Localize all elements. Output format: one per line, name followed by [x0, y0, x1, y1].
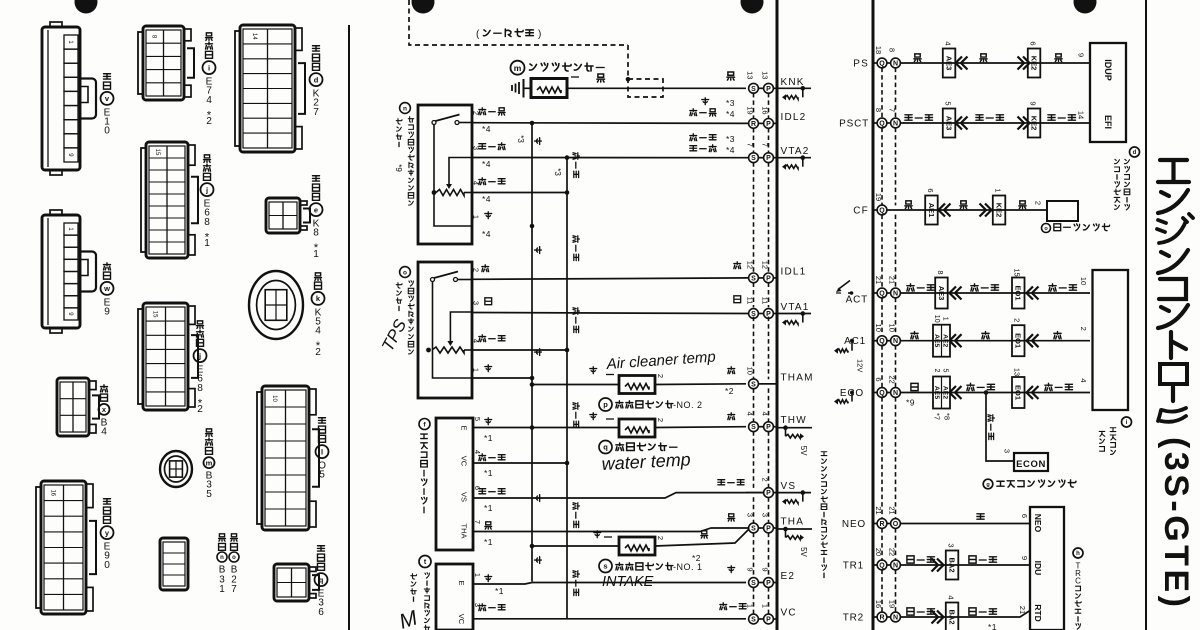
ECM left boundary [776, 0, 779, 630]
potentiometer N1 [432, 190, 437, 195]
dashed link S col [753, 497, 755, 523]
label cha O1 [485, 365, 492, 372]
svg-text:0: 0 [104, 126, 110, 137]
node bus1 top [530, 121, 535, 126]
chevron [955, 287, 962, 300]
thermistor NO1 [619, 537, 655, 555]
pin 1 no1 [604, 536, 612, 538]
svg-text:P: P [766, 424, 771, 431]
svg-text:q: q [603, 443, 608, 452]
svg-text:*1: *1 [988, 622, 997, 630]
dashed link P col [768, 93, 770, 119]
turbo box [436, 564, 473, 630]
svg-text:j: j [198, 351, 201, 360]
svg-text:5: 5 [943, 101, 952, 105]
svg-text:1: 1 [204, 238, 210, 249]
svg-text:*1: *1 [495, 586, 504, 596]
label O5 [318, 418, 325, 443]
svg-text:Q: Q [879, 208, 885, 215]
svg-text:*8: *8 [942, 413, 951, 420]
ECO gnd arrow [850, 391, 854, 395]
label cha rot4 [535, 495, 542, 502]
svg-text:j: j [205, 185, 208, 194]
svg-text:KE2: KE2 [1029, 56, 1038, 71]
dashed link P col [768, 283, 770, 308]
svg-text:KNK: KNK [781, 77, 805, 88]
svg-text:KE2: KE2 [1029, 116, 1038, 131]
svg-text:IDL2: IDL2 [781, 112, 807, 123]
svg-text:AE5: AE5 [933, 334, 940, 347]
svg-text:AE3: AE3 [937, 286, 946, 301]
svg-text:E: E [459, 425, 468, 430]
label cha [485, 212, 492, 219]
connector KE2 PS [1028, 49, 1041, 78]
svg-text:AE2: AE2 [941, 334, 948, 347]
svg-text:THA: THA [781, 517, 805, 528]
svg-text:S: S [751, 155, 756, 162]
svg-text:*3: *3 [726, 98, 735, 108]
label aka-kuro [479, 108, 505, 115]
svg-text:x: x [102, 405, 107, 414]
svg-text:P: P [766, 617, 771, 624]
high pressure switch [1047, 201, 1078, 221]
hp switch label [1042, 224, 1051, 233]
svg-text:C: C [1075, 577, 1081, 586]
label aka ac1b [982, 332, 989, 339]
chevron [961, 57, 968, 70]
svg-text:10: 10 [933, 315, 940, 323]
svg-text:7: 7 [473, 520, 482, 524]
svg-text:v: v [105, 94, 110, 103]
label aoki psct2 [976, 115, 1004, 120]
svg-text:10: 10 [271, 395, 277, 402]
connector E74 [143, 26, 184, 100]
svg-text:*9: *9 [394, 164, 403, 172]
svg-text:N: N [893, 121, 898, 128]
svg-text:d: d [314, 75, 319, 84]
svg-text:water temp: water temp [601, 449, 691, 474]
node bus1 j3 [530, 425, 535, 430]
ECM pin VTA1 [749, 309, 759, 319]
shield dashed box [627, 45, 629, 79]
connector E68 *2 [143, 303, 188, 410]
label cha rot5 [535, 557, 542, 564]
label aka-ao [479, 178, 505, 185]
label E68 *2 [196, 321, 203, 346]
ground [512, 82, 519, 94]
connector B4 [57, 378, 89, 436]
svg-text:Q: Q [879, 338, 885, 345]
svg-text:E: E [457, 580, 466, 585]
svg-text:R: R [879, 521, 884, 528]
TPS label [400, 267, 411, 278]
svg-text:i: i [208, 63, 210, 72]
connector AE1 CF [925, 196, 938, 225]
svg-text:4: 4 [101, 427, 107, 438]
turbo label [419, 556, 431, 568]
svg-text:2: 2 [315, 347, 321, 358]
label momoao eco1 [967, 383, 995, 390]
NO1 sensor label [599, 560, 612, 573]
svg-text:3: 3 [471, 301, 480, 305]
ECM pin IDL2 [749, 119, 759, 129]
dashed link S col [753, 283, 755, 308]
dashed link Q col [881, 528, 883, 560]
label cha rot1 [535, 138, 542, 145]
wire VTA2 green-red [472, 157, 750, 159]
ECM pin VTA2 [749, 153, 759, 163]
AFM label [419, 419, 430, 430]
wire TR1 [900, 564, 1030, 566]
chevron [1018, 117, 1025, 130]
chevron [961, 117, 968, 130]
svg-text:AE2: AE2 [941, 386, 948, 399]
svg-text:4: 4 [206, 95, 212, 106]
svg-text:5V: 5V [799, 547, 808, 557]
chevron [932, 559, 939, 572]
block IDUP EFI [1090, 43, 1126, 142]
svg-text:5: 5 [206, 489, 212, 500]
svg-text:4: 4 [473, 450, 482, 454]
dashed link N col [895, 345, 897, 388]
row PS [877, 58, 887, 68]
svg-text:EO1: EO1 [1014, 333, 1023, 348]
svg-text:1: 1 [67, 227, 73, 231]
dashed link N col [895, 570, 897, 613]
wire red-blue pin4 [472, 192, 567, 194]
ECM internal label [821, 452, 827, 578]
svg-text:N: N [893, 291, 898, 298]
label kuro AFM [485, 522, 492, 529]
label akakuro *4 idl2 [690, 109, 716, 116]
pin 1 label [571, 76, 579, 78]
label shiroao tr2b [969, 608, 997, 615]
label K54 [314, 273, 321, 289]
label midoriaka *4 vta2 [690, 145, 716, 152]
svg-text:AE3: AE3 [944, 56, 953, 71]
connector E36 [274, 564, 309, 601]
node ECON junction [984, 390, 989, 395]
svg-text:15: 15 [1013, 268, 1022, 276]
label shiroao tr1a [907, 556, 935, 563]
svg-text:IDL1: IDL1 [781, 266, 807, 277]
svg-text:P: P [766, 155, 771, 162]
svg-text:5: 5 [473, 417, 482, 421]
label cha AFM [485, 418, 492, 425]
svg-text:VTA1: VTA1 [781, 302, 810, 313]
title ru [1158, 408, 1186, 422]
label momomidori act3 [1049, 284, 1077, 291]
connector B35 [160, 451, 192, 487]
svg-text:14: 14 [251, 33, 257, 40]
potentiometer O1 [426, 348, 431, 353]
chevron [944, 204, 951, 217]
pullup 5V THW [777, 427, 812, 429]
sub TPS label [400, 103, 411, 114]
svg-text:AE5: AE5 [933, 386, 940, 399]
label shiroao tr2a [907, 608, 935, 615]
svg-text:CF: CF [853, 206, 869, 217]
dashed link N col [895, 215, 897, 289]
svg-text:EO1: EO1 [1014, 385, 1023, 400]
ECM pin THAM [749, 379, 759, 389]
svg-text:N: N [893, 338, 898, 345]
label akaao rot2 [573, 236, 579, 261]
svg-text:EO1: EO1 [1014, 285, 1023, 300]
dashed link N col [895, 528, 897, 560]
ECON switch [1014, 453, 1048, 471]
wire internal left [434, 125, 472, 227]
svg-text:ACT: ACT [846, 295, 868, 306]
dashed link Q col [881, 298, 883, 337]
dashed link P col [768, 497, 770, 523]
label E68 *1 [203, 155, 210, 180]
svg-text:2: 2 [933, 369, 940, 373]
connector E9 [42, 215, 80, 328]
dashed link Q col [881, 570, 883, 613]
chevron [1032, 287, 1039, 300]
svg-text:l: l [321, 447, 323, 456]
svg-text:ECO: ECO [840, 388, 864, 399]
label K8 [312, 176, 319, 201]
wire NO1 right diagonal [655, 530, 749, 547]
svg-text:14: 14 [1076, 111, 1085, 119]
svg-text:q: q [319, 575, 324, 584]
svg-text:1: 1 [219, 584, 225, 595]
wire sw out O1 [458, 279, 473, 281]
label cha rot2 [535, 247, 542, 254]
svg-text:12V: 12V [855, 359, 864, 372]
svg-text:13: 13 [760, 71, 769, 79]
connector EO1 ACT [1012, 278, 1025, 309]
title to [1171, 332, 1186, 358]
title chouon [1171, 387, 1175, 401]
dashed link N col [895, 397, 897, 519]
svg-text:Q: Q [879, 61, 885, 68]
svg-text:P: P [766, 86, 771, 93]
label akaao *3 vta2 [690, 134, 716, 141]
svg-text:13: 13 [1013, 368, 1022, 376]
svg-text:VS: VS [459, 492, 468, 502]
continuation VTA1 [777, 313, 811, 315]
label cha no1 [594, 531, 601, 538]
label kuro no1 [701, 531, 708, 538]
label shiro [485, 298, 492, 305]
connector AE3 ACT [935, 278, 948, 309]
dashed link S col [753, 93, 755, 119]
title ro [1160, 364, 1187, 384]
svg-text:5: 5 [319, 470, 325, 481]
dashed link Q col [881, 397, 883, 519]
svg-text:N: N [893, 615, 898, 622]
label akaao rot1 [573, 153, 579, 178]
connector AE5 AE2 AC1 [933, 325, 950, 357]
svg-text:1: 1 [941, 317, 948, 321]
label cha turbo [485, 575, 492, 582]
knock sensor label [511, 61, 525, 75]
wire THAM left [532, 384, 619, 386]
wire THW right [655, 426, 746, 429]
AC1 12V supply [850, 339, 854, 343]
wire THW brown [473, 427, 619, 429]
svg-text:6: 6 [1020, 514, 1029, 518]
svg-text:e: e [314, 205, 318, 214]
svg-text:2: 2 [656, 374, 665, 378]
node bus2 j3 [565, 461, 570, 466]
svg-text:VC: VC [459, 456, 468, 467]
svg-text:9: 9 [67, 312, 73, 316]
svg-text:7: 7 [231, 584, 237, 595]
svg-text:2: 2 [1013, 318, 1022, 322]
ECM pin IDL1 [749, 273, 759, 283]
dashed link N col [895, 68, 897, 119]
wiper O1 [450, 312, 472, 343]
svg-text:E2: E2 [781, 571, 796, 582]
svg-text:*3: *3 [553, 168, 562, 176]
svg-text:S: S [751, 86, 756, 93]
svg-text:n: n [220, 555, 224, 561]
svg-text:6: 6 [1028, 41, 1037, 45]
sensor N1 box [418, 105, 472, 244]
chevron [1032, 334, 1039, 347]
svg-text:-NO. 2: -NO. 2 [673, 400, 703, 410]
svg-text:*4: *4 [482, 124, 491, 134]
svg-text:15: 15 [152, 311, 158, 318]
svg-text:o: o [232, 555, 236, 561]
TRC label [1073, 548, 1083, 558]
wire label KNK black [727, 72, 735, 80]
connector B31/B27 [160, 538, 188, 590]
wire NO1 left [532, 545, 619, 547]
label akaao vc [720, 603, 746, 610]
svg-text:5: 5 [941, 369, 948, 373]
pullup 5V THA [777, 528, 812, 530]
connector AE5 AE2 ECO [933, 377, 950, 409]
label cha e2 [728, 566, 735, 573]
svg-text:P: P [766, 490, 771, 497]
svg-text:2: 2 [1079, 327, 1088, 331]
svg-text:8: 8 [151, 35, 157, 39]
svg-text:NEO: NEO [842, 519, 866, 530]
svg-text:S: S [751, 617, 756, 624]
svg-text:*1: *1 [484, 537, 493, 547]
svg-text:2: 2 [1033, 201, 1042, 205]
svg-text:P: P [766, 526, 771, 533]
svg-text:M: M [396, 606, 420, 630]
dashed link P col [768, 388, 770, 422]
svg-text:8: 8 [887, 48, 896, 52]
svg-text:6: 6 [318, 607, 324, 618]
svg-text:): ) [538, 29, 542, 40]
wire sw out [459, 122, 472, 124]
label midori-aka [479, 143, 505, 150]
svg-text:y: y [105, 528, 110, 537]
wire bus1 [531, 123, 533, 582]
dashed link S col [753, 388, 755, 422]
ECM pin VC [749, 614, 759, 624]
svg-text:2: 2 [656, 536, 665, 540]
label momomidori act1 [907, 284, 935, 291]
svg-text:1: 1 [471, 215, 480, 219]
svg-text:6: 6 [926, 188, 935, 192]
svg-text:0: 0 [104, 560, 110, 571]
connector BA2 TR1 [946, 551, 959, 580]
svg-text:*1: *1 [484, 433, 493, 443]
svg-text:*3: *3 [726, 134, 735, 144]
wire to ECON [986, 393, 1014, 462]
svg-text:P: P [766, 275, 771, 282]
ECM pin THW [749, 422, 759, 432]
svg-text:s: s [603, 562, 607, 571]
label cha rot3 [535, 349, 542, 356]
label cha thw [590, 413, 597, 420]
label shiro eco [911, 383, 918, 390]
svg-text:8: 8 [313, 228, 319, 239]
svg-text:1: 1 [67, 40, 73, 44]
label akaao O1 [479, 335, 505, 342]
svg-text:TPS: TPS [378, 316, 411, 355]
label akaao rot6 [573, 571, 579, 596]
svg-text:S: S [751, 381, 756, 388]
svg-text:AE3: AE3 [944, 116, 953, 131]
svg-text:Q: Q [879, 563, 885, 570]
svg-text:2: 2 [656, 418, 665, 422]
wire ECO [900, 392, 1090, 394]
svg-text:o: o [1044, 226, 1048, 232]
shield dashed line [409, 0, 628, 45]
svg-text:IDUP: IDUP [1103, 59, 1113, 81]
dashed link Q col [881, 345, 883, 388]
svg-text:1: 1 [473, 573, 482, 577]
label cha no2 [590, 367, 597, 374]
row AC1 [877, 336, 887, 346]
row ECO [877, 388, 887, 398]
ECM pin E2 [749, 578, 759, 588]
label B35 [205, 429, 212, 454]
connector EO1 ECO [1012, 377, 1025, 408]
svg-text:3: 3 [946, 543, 955, 547]
switch contacts O1 [431, 278, 435, 282]
svg-text:2: 2 [471, 268, 480, 272]
connector BA2 TR2 [946, 603, 959, 630]
ECM pin KNK [749, 83, 759, 93]
svg-text:S: S [751, 526, 756, 533]
pin 1 no2 [606, 374, 614, 376]
label kuro cf3 [1019, 201, 1026, 209]
dashed link S col [753, 162, 755, 273]
wire IDL2 red-black [472, 122, 750, 125]
label B4 [100, 385, 107, 401]
label kuro tha ecm [728, 514, 735, 521]
separator line [348, 25, 350, 630]
ECM right boundary [872, 0, 875, 630]
wire E2 brown [473, 583, 532, 585]
svg-text:Q: Q [879, 121, 885, 128]
svg-text:p: p [603, 400, 608, 409]
label akaao turbo [479, 604, 505, 611]
wiper N1 [449, 158, 472, 187]
svg-text:*4: *4 [482, 194, 491, 204]
svg-text:P: P [766, 121, 771, 128]
dashed link P col [768, 533, 770, 578]
svg-text:k: k [316, 294, 321, 303]
wire pin1 brown [472, 377, 532, 379]
AFM box [436, 418, 473, 550]
connector KE2 PSCT [1028, 109, 1041, 138]
svg-text:o: o [403, 269, 407, 276]
svg-text:AE1: AE1 [927, 203, 936, 218]
svg-text:4: 4 [315, 326, 321, 337]
